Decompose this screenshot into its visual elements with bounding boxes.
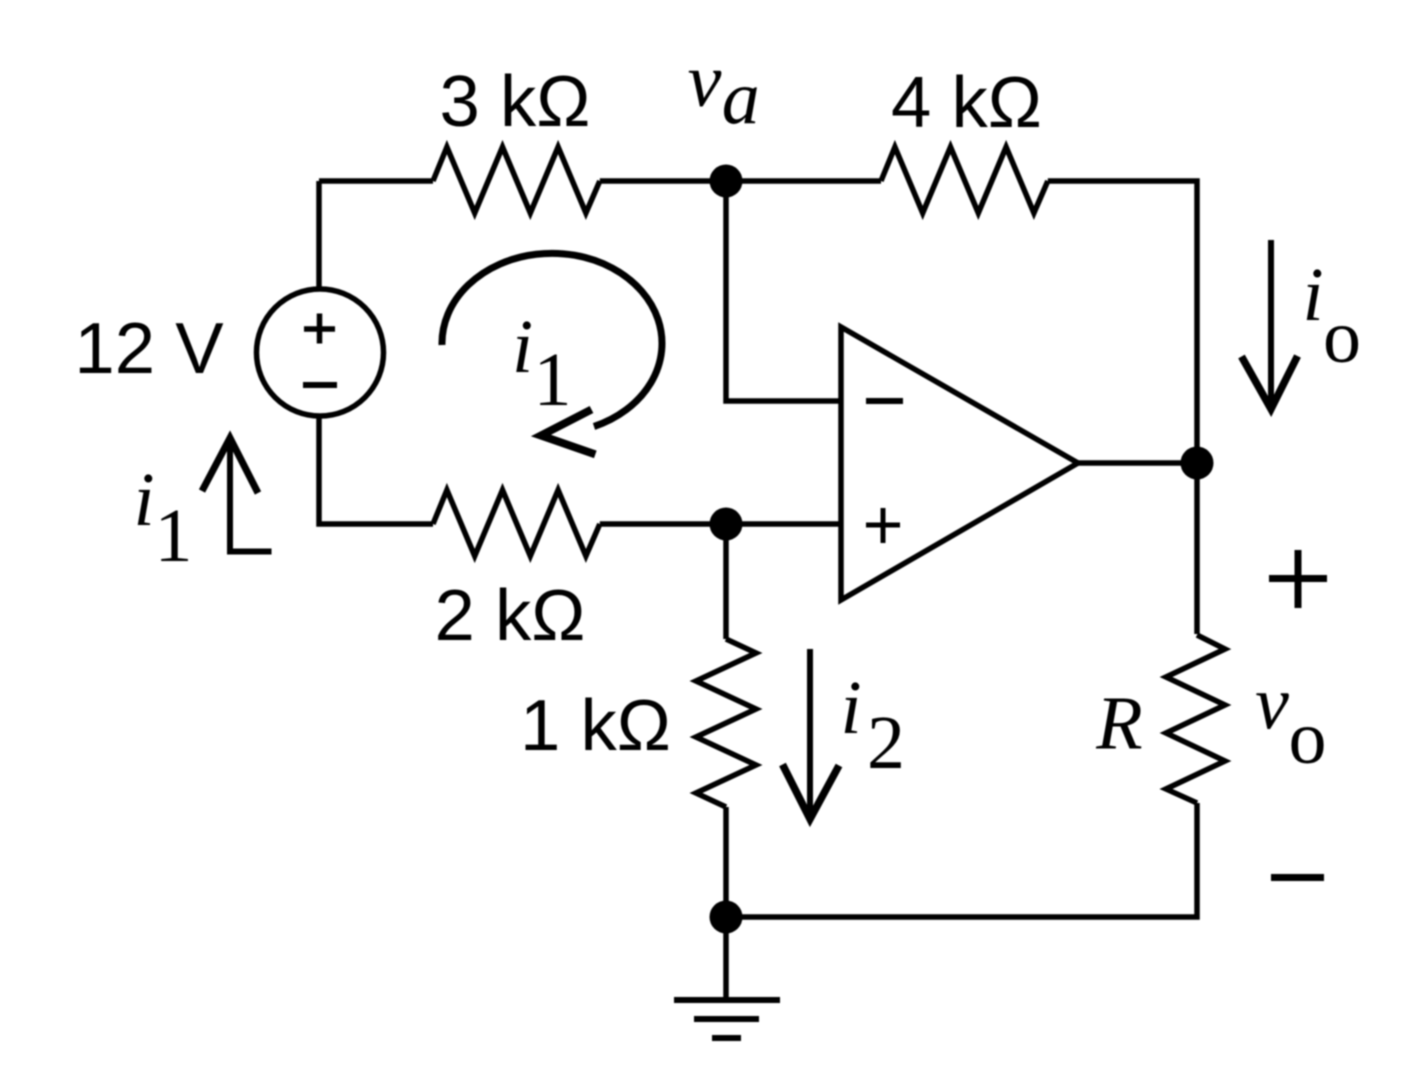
- svg-text:i: i: [840, 666, 861, 750]
- svg-text:v: v: [688, 39, 722, 123]
- svg-text:2: 2: [867, 701, 905, 785]
- svg-text:2 kΩ: 2 kΩ: [435, 575, 586, 656]
- svg-text:i: i: [1302, 253, 1323, 337]
- svg-text:i: i: [512, 305, 533, 389]
- svg-text:1: 1: [534, 338, 572, 422]
- svg-text:12 V: 12 V: [74, 308, 224, 389]
- svg-text:4 kΩ: 4 kΩ: [891, 62, 1042, 143]
- svg-text:v: v: [1255, 662, 1289, 746]
- svg-text:a: a: [722, 56, 760, 140]
- svg-text:1 kΩ: 1 kΩ: [520, 685, 671, 766]
- svg-text:1: 1: [155, 494, 193, 578]
- svg-text:o: o: [1323, 295, 1361, 379]
- svg-text:i: i: [133, 458, 154, 542]
- svg-text:R: R: [1095, 682, 1142, 766]
- svg-text:o: o: [1289, 696, 1327, 780]
- svg-text:3 kΩ: 3 kΩ: [440, 61, 591, 142]
